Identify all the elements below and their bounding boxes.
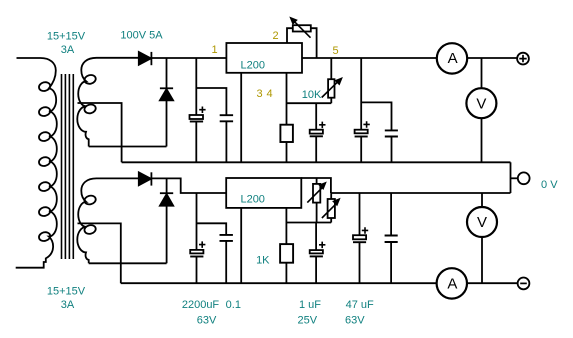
transformer primary winding bbox=[16, 58, 57, 268]
svg-text:15+15V: 15+15V bbox=[47, 286, 86, 298]
diode D1 bbox=[139, 52, 152, 65]
capacitor C6 2200uF bottom bbox=[190, 193, 205, 283]
capacitor C1 2200uF top bbox=[190, 58, 206, 162]
wire primary top lead bbox=[17, 57, 41, 59]
potentiometer P1 body bbox=[293, 25, 311, 31]
svg-text:5: 5 bbox=[332, 45, 338, 57]
wire secondary 2 center tap bbox=[78, 223, 121, 283]
op-amp U2 L200 regulator box bottom bbox=[226, 178, 301, 208]
svg-text:3A: 3A bbox=[61, 44, 75, 56]
potentiometer P2 lower stem bbox=[330, 98, 332, 104]
svg-text:25V: 25V bbox=[298, 315, 318, 327]
ground rail 0V bus top bbox=[122, 161, 511, 163]
potentiometer P4 lower stem bbox=[330, 218, 332, 223]
svg-text:L200: L200 bbox=[240, 194, 264, 206]
potentiometer P3 arrow bbox=[307, 182, 327, 203]
wire U2 top edge extension to output bbox=[301, 178, 331, 193]
svg-text:1 uF: 1 uF bbox=[299, 299, 321, 311]
svg-text:A: A bbox=[448, 50, 458, 67]
potentiometer P4 upper stem bbox=[330, 193, 332, 199]
potentiometer P3 body bbox=[313, 184, 320, 203]
capacitor C9 47uF bottom bbox=[353, 193, 368, 283]
capacitor C7 0.1 bottom bbox=[220, 235, 233, 283]
wire bottom input rail bbox=[151, 178, 226, 193]
potentiometer P2 10K body bbox=[328, 79, 334, 98]
diode D4 bbox=[160, 178, 173, 263]
ammeter A2 bbox=[437, 268, 467, 298]
potentiometer P3 lower stem bbox=[316, 203, 318, 223]
svg-text:10K: 10K bbox=[302, 89, 322, 101]
capacitor C3 1uF bbox=[310, 103, 326, 162]
wire secondary 1 center tap bbox=[78, 103, 122, 162]
svg-text:0 V: 0 V bbox=[541, 179, 558, 191]
wire U2 pin 4 to resistor R2 bbox=[285, 208, 287, 244]
potentiometer P4 body bbox=[328, 199, 335, 218]
capacitor C8 1uF bottom bbox=[310, 223, 326, 284]
terminal 0V bbox=[518, 172, 530, 184]
svg-text:47 uF: 47 uF bbox=[346, 299, 374, 311]
voltmeter V2 bbox=[467, 207, 497, 237]
svg-text:3: 3 bbox=[256, 88, 262, 100]
potentiometer P1 arrow bbox=[289, 17, 310, 38]
svg-text:15+15V: 15+15V bbox=[47, 31, 86, 43]
svg-text:100V 5A: 100V 5A bbox=[120, 29, 163, 41]
svg-text:L200: L200 bbox=[241, 60, 265, 72]
wire ammeter junction to V meter bbox=[481, 58, 483, 162]
wire output to plus terminal bbox=[467, 57, 517, 59]
wire 10K pot stem bbox=[330, 58, 332, 79]
capacitor C4 47uF bbox=[355, 58, 370, 162]
svg-text:63V: 63V bbox=[197, 315, 217, 327]
svg-text:2200uF: 2200uF bbox=[182, 299, 220, 311]
terminal plus bbox=[517, 53, 529, 65]
capacitor C5 bbox=[385, 130, 398, 162]
svg-text:2: 2 bbox=[272, 30, 278, 42]
wire bottom node line bbox=[286, 222, 331, 224]
diode D3 bbox=[139, 172, 152, 185]
wire top output rail bbox=[302, 57, 437, 59]
svg-text:63V: 63V bbox=[345, 315, 365, 327]
potentiometer P2 arrow bbox=[322, 77, 343, 98]
diode D2 bbox=[160, 58, 173, 147]
transformer secondary winding 2 bbox=[77, 178, 139, 263]
svg-text:4: 4 bbox=[266, 88, 272, 100]
wire top input rail bbox=[151, 57, 226, 59]
transformer secondary 1 loops bbox=[84, 74, 97, 85]
svg-text:0.1: 0.1 bbox=[226, 299, 241, 311]
terminal minus bbox=[518, 278, 530, 290]
transformer secondary 2 loops bbox=[84, 194, 97, 205]
resistor R2 1K bbox=[280, 244, 293, 263]
svg-text:1K: 1K bbox=[256, 254, 270, 266]
resistor R1 bbox=[280, 125, 293, 142]
wire U2 pin 3 bbox=[240, 208, 242, 283]
svg-text:V: V bbox=[476, 95, 486, 112]
potentiometer P4 arrow bbox=[322, 198, 341, 218]
0V bus bottom edge bbox=[331, 192, 511, 194]
transformer secondary winding 1 bbox=[77, 58, 139, 147]
capacitor C10 bottom bbox=[385, 193, 398, 283]
wire pin 4 to resistor R1 bbox=[286, 73, 288, 125]
capacitor C2 0.1 top bbox=[220, 115, 233, 162]
wire branch C6 to C7 bbox=[197, 223, 227, 235]
op-amp U1 L200 regulator box bbox=[226, 43, 302, 73]
wire 0V terminal stub bbox=[511, 177, 518, 179]
ammeter A1 bbox=[437, 43, 467, 73]
voltmeter V1 bbox=[466, 88, 496, 118]
wire pin 2 to potentiometer P1 bbox=[287, 28, 293, 43]
wire branch C4 to C5 bbox=[361, 102, 391, 130]
wire branch C1 to C2 bbox=[196, 88, 226, 115]
svg-text:1: 1 bbox=[211, 44, 217, 56]
wire secondary 1 lower end to D2 anode bbox=[89, 146, 167, 148]
svg-text:3A: 3A bbox=[61, 299, 75, 311]
transformer primary winding loops bbox=[38, 81, 51, 92]
0V bus right edge bbox=[510, 162, 512, 193]
wire bottom minus rail bbox=[121, 282, 518, 284]
wire bottom V meter column bbox=[481, 193, 483, 283]
wire R1 to ground rail bbox=[286, 142, 288, 162]
wire R2 to bottom rail bbox=[285, 263, 287, 284]
potentiometer P1 right lead bbox=[311, 28, 317, 58]
potentiometer P3 upper stem bbox=[316, 178, 318, 184]
wire pin4 node line bbox=[287, 102, 332, 104]
wire pin 3 bbox=[240, 73, 242, 163]
wire secondary 2 lower end to D4 anode bbox=[89, 262, 167, 264]
svg-text:V: V bbox=[477, 214, 487, 231]
transformer core bbox=[62, 74, 74, 259]
svg-text:A: A bbox=[447, 276, 457, 293]
